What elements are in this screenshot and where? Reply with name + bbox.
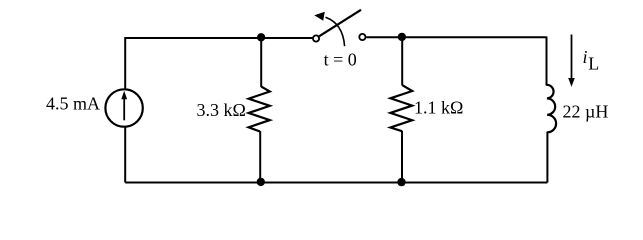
wire top-left segment bbox=[125, 37, 312, 39]
wire right upper bbox=[546, 37, 548, 86]
junction dot top branch1 bbox=[257, 33, 265, 41]
switch arc arrowhead bbox=[314, 12, 325, 21]
junction dot top branch2 bbox=[398, 33, 406, 41]
svg-text:L: L bbox=[588, 54, 599, 74]
svg-text:22 µH: 22 µH bbox=[563, 102, 609, 122]
svg-text:3.3 kΩ: 3.3 kΩ bbox=[197, 100, 246, 120]
wire branch1 upper bbox=[260, 38, 262, 87]
switch blade bbox=[319, 10, 361, 36]
wire right lower bbox=[546, 132, 548, 183]
inductor L1 coil bbox=[547, 85, 556, 133]
switch terminal right bbox=[359, 34, 365, 40]
junction dot bottom branch2 bbox=[397, 178, 405, 186]
switch terminal left bbox=[313, 35, 319, 41]
resistor R1 3.3k zigzag bbox=[249, 87, 270, 132]
wire left upper bbox=[124, 37, 126, 88]
wire branch1 lower bbox=[259, 131, 261, 182]
iL current arrow bbox=[571, 35, 573, 80]
switch opening arc bbox=[326, 17, 345, 46]
wire top-right segment bbox=[366, 36, 546, 38]
current source I1 circle bbox=[105, 89, 142, 126]
current source arrow bbox=[123, 99, 125, 121]
svg-text:1.1 kΩ: 1.1 kΩ bbox=[414, 98, 463, 118]
resistor R2 1.1k zigzag bbox=[390, 85, 412, 131]
svg-text:t = 0: t = 0 bbox=[324, 49, 357, 69]
wire branch2 upper bbox=[401, 38, 403, 86]
junction dot bottom branch1 bbox=[257, 178, 265, 186]
wire branch2 lower bbox=[401, 131, 403, 183]
svg-text:4.5 mA: 4.5 mA bbox=[46, 94, 100, 114]
wire left lower bbox=[124, 127, 126, 182]
svg-text:i: i bbox=[583, 47, 588, 67]
wire bottom bbox=[125, 182, 547, 184]
